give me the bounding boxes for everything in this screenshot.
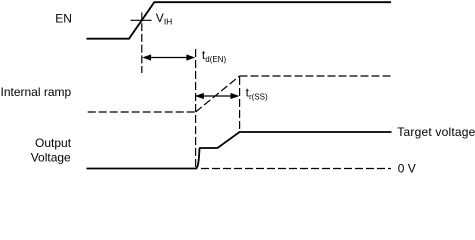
wire dashed vertical at ramp start — [195, 49, 197, 168]
node VIH crossing tick horizontal — [131, 19, 152, 21]
svg-text:Internal ramp: Internal ramp — [1, 85, 72, 99]
svg-text:Target voltage: Target voltage — [397, 125, 475, 139]
wire dashed vertical at VIH crossing — [141, 23, 143, 73]
svg-text:EN: EN — [55, 12, 72, 26]
wire dashed vertical at ramp top corner — [239, 77, 241, 131]
wire internal ramp baseline dashed — [88, 111, 196, 113]
svg-text:Output: Output — [35, 136, 72, 150]
wire EN waveform — [87, 2, 392, 39]
wire internal ramp top dashed — [240, 75, 392, 77]
node VIH crossing tick vertical — [141, 12, 143, 20]
wire 0V dashed baseline — [201, 168, 391, 170]
dimension arrow td(EN) — [142, 54, 195, 60]
svg-text:Voltage: Voltage — [31, 150, 71, 164]
dimension arrow tr(SS) — [195, 93, 239, 99]
svg-text:0 V: 0 V — [398, 162, 416, 176]
wire internal ramp rising dashed — [196, 76, 240, 112]
wire output voltage waveform — [87, 132, 392, 169]
